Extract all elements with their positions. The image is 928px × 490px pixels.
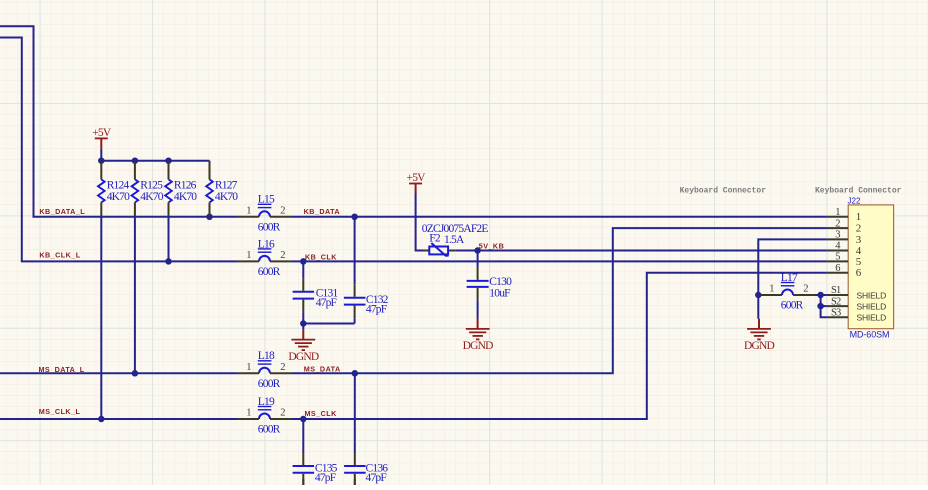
svg-text:600R: 600R xyxy=(781,300,804,312)
svg-text:R125: R125 xyxy=(140,179,163,191)
svg-text:SHIELD: SHIELD xyxy=(857,290,887,300)
svg-text:600R: 600R xyxy=(258,221,281,233)
svg-text:600R: 600R xyxy=(258,424,281,436)
svg-text:600R: 600R xyxy=(258,266,281,278)
svg-text:R124: R124 xyxy=(107,179,130,191)
svg-text:L15: L15 xyxy=(258,194,275,206)
svg-text:L17: L17 xyxy=(781,272,798,284)
svg-text:MS_DATA: MS_DATA xyxy=(304,364,341,373)
svg-text:R126: R126 xyxy=(174,179,197,191)
svg-text:1: 1 xyxy=(769,284,774,295)
svg-text:DGND: DGND xyxy=(744,340,775,352)
svg-text:1: 1 xyxy=(246,250,251,261)
svg-text:S3: S3 xyxy=(831,307,841,318)
svg-text:6: 6 xyxy=(835,263,840,274)
svg-text:47pF: 47pF xyxy=(316,297,337,309)
svg-text:600R: 600R xyxy=(258,378,281,390)
svg-text:4K70: 4K70 xyxy=(174,191,197,203)
svg-text:47pF: 47pF xyxy=(315,472,336,484)
svg-text:MS_CLK: MS_CLK xyxy=(305,409,338,418)
svg-text:J22: J22 xyxy=(848,196,861,205)
svg-text:C130: C130 xyxy=(489,276,512,288)
svg-text:1: 1 xyxy=(246,362,251,373)
svg-text:MS_DATA_L: MS_DATA_L xyxy=(39,365,85,374)
svg-text:2: 2 xyxy=(280,250,285,261)
svg-text:Keyboard Connector: Keyboard Connector xyxy=(680,187,767,196)
svg-text:SHIELD: SHIELD xyxy=(857,302,887,312)
svg-text:1.5A: 1.5A xyxy=(444,234,465,246)
svg-text:MD-60SM: MD-60SM xyxy=(850,330,890,340)
svg-text:2: 2 xyxy=(280,408,285,419)
svg-text:L19: L19 xyxy=(258,396,275,408)
svg-text:S1: S1 xyxy=(831,285,841,296)
svg-text:DGND: DGND xyxy=(288,351,319,363)
svg-text:1: 1 xyxy=(835,207,840,218)
svg-text:KB_CLK_L: KB_CLK_L xyxy=(39,250,80,259)
svg-text:1: 1 xyxy=(246,408,251,419)
svg-text:SHIELD: SHIELD xyxy=(857,313,887,323)
svg-text:4K70: 4K70 xyxy=(140,191,163,203)
svg-text:5V_KB: 5V_KB xyxy=(479,241,504,250)
svg-text:L16: L16 xyxy=(258,238,275,250)
svg-text:R127: R127 xyxy=(215,179,238,191)
svg-text:1: 1 xyxy=(246,205,251,216)
svg-text:2: 2 xyxy=(803,284,808,295)
svg-text:S2: S2 xyxy=(831,296,841,307)
svg-text:+5V: +5V xyxy=(407,172,427,184)
svg-text:47pF: 47pF xyxy=(366,472,387,484)
svg-text:Keyboard Connector: Keyboard Connector xyxy=(815,187,902,196)
svg-text:2: 2 xyxy=(280,362,285,373)
svg-text:2: 2 xyxy=(835,218,840,229)
svg-text:2: 2 xyxy=(280,205,285,216)
svg-text:F2: F2 xyxy=(429,232,441,244)
svg-text:4K70: 4K70 xyxy=(107,191,130,203)
svg-text:5: 5 xyxy=(835,252,840,263)
svg-text:2: 2 xyxy=(856,223,861,235)
svg-text:MS_CLK_L: MS_CLK_L xyxy=(39,407,81,416)
svg-text:KB_DATA_L: KB_DATA_L xyxy=(39,207,85,216)
svg-text:KB_CLK: KB_CLK xyxy=(305,252,337,261)
svg-text:L18: L18 xyxy=(258,350,275,362)
svg-text:+5V: +5V xyxy=(92,127,112,139)
svg-text:10uF: 10uF xyxy=(489,288,510,300)
svg-text:DGND: DGND xyxy=(463,340,494,352)
svg-text:4K70: 4K70 xyxy=(215,191,238,203)
svg-text:47pF: 47pF xyxy=(366,304,387,316)
svg-text:KB_DATA: KB_DATA xyxy=(304,207,340,216)
svg-text:1: 1 xyxy=(856,211,861,223)
svg-text:3: 3 xyxy=(835,230,840,241)
